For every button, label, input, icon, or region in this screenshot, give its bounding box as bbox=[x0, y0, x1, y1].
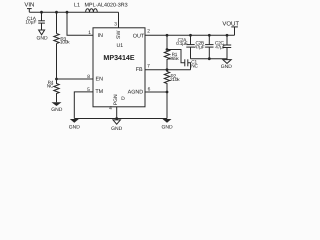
wire IN (VIN rail to pin IN) bbox=[67, 12, 93, 35]
ground PGND (open triangle) bbox=[111, 120, 123, 132]
junction R1 tap bbox=[166, 34, 169, 37]
resistor R4 bbox=[54, 79, 59, 102]
svg-text:FB: FB bbox=[136, 67, 143, 73]
capacitor C1A bbox=[38, 12, 45, 30]
wire FB bbox=[145, 69, 191, 71]
svg-text:2: 2 bbox=[147, 29, 150, 35]
junction FB node bbox=[166, 68, 169, 71]
svg-text:VIN: VIN bbox=[24, 1, 34, 8]
wire capacitor ground rail bbox=[191, 58, 228, 60]
capacitor C1 value label bbox=[191, 59, 198, 68]
junction PGND on rail bbox=[115, 117, 118, 120]
svg-text:GND: GND bbox=[51, 107, 63, 113]
svg-text:8: 8 bbox=[87, 74, 90, 80]
resistor R2 bbox=[164, 70, 169, 92]
resistor R4 value label bbox=[47, 80, 54, 88]
ground C1A (open triangle) bbox=[36, 30, 48, 41]
junction EN tap bbox=[55, 78, 58, 81]
wire AGND bbox=[145, 92, 167, 119]
capacitor C2B bbox=[205, 35, 213, 58]
svg-text:GND: GND bbox=[111, 126, 123, 132]
terminal VIN bbox=[27, 9, 32, 13]
svg-text:4: 4 bbox=[109, 105, 112, 111]
svg-text:1: 1 bbox=[88, 30, 91, 36]
capacitor C2B value label bbox=[194, 41, 204, 50]
svg-text:IN: IN bbox=[98, 33, 103, 39]
svg-text:NC: NC bbox=[191, 64, 198, 69]
svg-text:6: 6 bbox=[148, 86, 151, 92]
svg-text:47µF: 47µF bbox=[215, 44, 225, 49]
svg-text:MP3414E: MP3414E bbox=[103, 54, 134, 62]
svg-text:100k: 100k bbox=[60, 40, 70, 45]
svg-text:GND: GND bbox=[161, 125, 173, 131]
svg-text:GND: GND bbox=[69, 125, 81, 131]
junction C1 tap on R1 bbox=[166, 48, 169, 51]
capacitor C2C value label bbox=[215, 41, 226, 50]
junction AGND / R2 bbox=[166, 91, 169, 94]
wire OUT rail bbox=[145, 34, 235, 36]
junction C1A tap bbox=[40, 11, 43, 14]
svg-text:5: 5 bbox=[87, 87, 90, 93]
capacitor C1A value label bbox=[25, 16, 36, 26]
ground R4 (filled arrow) bbox=[51, 102, 63, 113]
junction C2A tap bbox=[189, 34, 192, 37]
IC U1 MP3414E box bbox=[93, 28, 145, 107]
terminal VOUT bbox=[231, 27, 238, 35]
resistor R1 bbox=[164, 35, 169, 69]
capacitor C2A value label bbox=[176, 38, 187, 46]
resistor R1 value label bbox=[169, 52, 179, 61]
svg-text:NC: NC bbox=[47, 83, 54, 88]
IC pin name PGND (rotated PGN + D) bbox=[113, 94, 125, 105]
svg-text:SW: SW bbox=[116, 31, 122, 39]
junction IN tap bbox=[66, 11, 69, 14]
capacitor C1 (NC, parallel R1) bbox=[167, 50, 191, 70]
svg-text:TM: TM bbox=[95, 89, 103, 95]
resistor R2 value label bbox=[170, 74, 180, 82]
wire PGND stub bbox=[116, 107, 118, 120]
svg-text:PGN: PGN bbox=[113, 94, 119, 105]
resistor R3 value label bbox=[60, 37, 70, 45]
svg-text:10µF: 10µF bbox=[25, 20, 36, 26]
junction R3 tap bbox=[55, 11, 58, 14]
ground C2 (open triangle) bbox=[221, 60, 233, 70]
svg-text:3: 3 bbox=[114, 22, 117, 28]
svg-text:D: D bbox=[121, 96, 125, 102]
svg-text:210k: 210k bbox=[170, 77, 180, 82]
wire VIN top rail bbox=[29, 11, 118, 13]
junction C2C tap bbox=[226, 34, 229, 37]
svg-text:VOUT: VOUT bbox=[222, 20, 239, 27]
junction C2B bottom bbox=[208, 57, 211, 60]
svg-text:47µF: 47µF bbox=[194, 44, 204, 49]
resistor R3 bbox=[54, 12, 59, 79]
svg-text:MPL-AL4020-3R3: MPL-AL4020-3R3 bbox=[85, 3, 128, 9]
svg-text:L1: L1 bbox=[74, 3, 80, 9]
junction C2B tap bbox=[208, 34, 211, 37]
svg-text:0.1µF: 0.1µF bbox=[176, 41, 187, 46]
ground TM (filled arrow) bbox=[69, 119, 81, 131]
svg-text:AGND: AGND bbox=[128, 90, 144, 96]
capacitor C2C bbox=[223, 35, 231, 59]
svg-text:GND: GND bbox=[36, 35, 48, 41]
wire TM bbox=[74, 92, 93, 119]
wire EN bbox=[57, 78, 94, 80]
svg-text:7: 7 bbox=[147, 64, 150, 70]
svg-text:365k: 365k bbox=[169, 56, 179, 61]
inductor L1 label bbox=[74, 3, 128, 9]
svg-text:OUT: OUT bbox=[133, 33, 145, 39]
wire SW (rail down to pin SW) bbox=[118, 12, 120, 28]
inductor L1 bbox=[86, 9, 98, 12]
svg-text:U1: U1 bbox=[116, 43, 123, 49]
svg-text:GND: GND bbox=[221, 64, 233, 70]
svg-text:EN: EN bbox=[96, 76, 104, 82]
wire bottom ground rail bbox=[74, 118, 167, 120]
capacitor C2A bbox=[186, 35, 194, 58]
ground AGND (filled arrow) bbox=[161, 119, 173, 131]
